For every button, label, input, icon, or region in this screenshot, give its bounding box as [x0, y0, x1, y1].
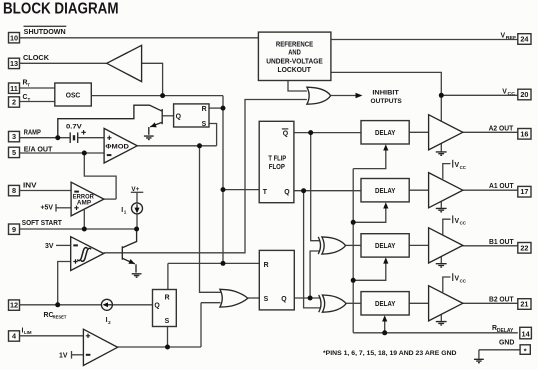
svg-text:20: 20 — [520, 90, 528, 99]
svg-text:5: 5 — [12, 148, 16, 157]
svg-text:T: T — [28, 97, 31, 102]
svg-text:ΦMOD: ΦMOD — [105, 144, 129, 151]
svg-text:RAMP: RAMP — [24, 130, 41, 137]
svg-text:A2 OUT: A2 OUT — [489, 125, 514, 132]
svg-text:11: 11 — [10, 84, 18, 93]
svg-text:AMP: AMP — [77, 201, 91, 207]
svg-text:V: V — [501, 32, 506, 39]
svg-text:13: 13 — [10, 59, 18, 68]
svg-text:INHIBIT: INHIBIT — [372, 90, 399, 97]
svg-text:Q: Q — [281, 296, 287, 303]
svg-text:*: * — [524, 346, 527, 355]
svg-text:Q: Q — [154, 303, 160, 310]
svg-text:+5V: +5V — [41, 204, 54, 211]
svg-text:DELAY: DELAY — [375, 243, 396, 250]
svg-text:LIM: LIM — [24, 330, 32, 335]
svg-text:FLOP: FLOP — [269, 164, 285, 171]
svg-text:R: R — [165, 294, 170, 301]
svg-text:10: 10 — [10, 34, 18, 43]
svg-text:LOCKOUT: LOCKOUT — [277, 67, 311, 74]
svg-text:CC: CC — [460, 165, 467, 170]
svg-text:E/A OUT: E/A OUT — [24, 146, 53, 153]
svg-text:DELAY: DELAY — [375, 301, 396, 308]
svg-text:14: 14 — [522, 329, 531, 338]
svg-text:2: 2 — [108, 320, 111, 325]
svg-text:CC: CC — [460, 278, 467, 283]
svg-text:22: 22 — [520, 243, 528, 252]
svg-text:3: 3 — [12, 132, 16, 141]
svg-text:CLOCK: CLOCK — [23, 55, 49, 62]
svg-text:DELAY: DELAY — [375, 130, 396, 137]
svg-text:REFERENCE: REFERENCE — [276, 41, 314, 48]
svg-text:SHUTDOWN: SHUTDOWN — [24, 29, 66, 36]
svg-text:DELAY: DELAY — [497, 328, 514, 334]
svg-text:UNDER-VOLTAGE: UNDER-VOLTAGE — [266, 58, 323, 65]
svg-text:16: 16 — [520, 129, 528, 138]
svg-text:*PINS 1, 6, 7, 15, 18, 19 AND: *PINS 1, 6, 7, 15, 18, 19 AND 23 ARE GND — [323, 350, 457, 357]
svg-text:0.7V: 0.7V — [66, 123, 83, 130]
svg-text:1: 1 — [124, 210, 127, 215]
svg-text:A1 OUT: A1 OUT — [489, 183, 514, 190]
svg-text:GND: GND — [499, 340, 514, 347]
svg-text:12: 12 — [10, 301, 18, 310]
svg-text:B1 OUT: B1 OUT — [489, 239, 514, 246]
svg-text:OSC: OSC — [66, 93, 81, 100]
svg-text:Q: Q — [283, 131, 289, 138]
svg-text:ERROR: ERROR — [73, 194, 95, 200]
svg-text:T FLIP: T FLIP — [268, 156, 286, 163]
svg-text:BLOCK DIAGRAM: BLOCK DIAGRAM — [3, 1, 119, 18]
svg-text:Q: Q — [176, 114, 182, 121]
svg-text:9: 9 — [12, 225, 16, 234]
svg-text:R: R — [202, 106, 207, 113]
svg-text:CC: CC — [508, 91, 516, 97]
svg-text:REF: REF — [506, 35, 516, 41]
svg-text:3V: 3V — [45, 243, 54, 250]
svg-text:1V: 1V — [59, 353, 68, 360]
svg-text:8: 8 — [12, 186, 16, 195]
svg-text:T: T — [27, 83, 30, 88]
svg-text:21: 21 — [520, 300, 528, 309]
svg-text:24: 24 — [520, 35, 529, 44]
svg-text:S: S — [165, 318, 170, 325]
svg-text:2: 2 — [12, 98, 16, 107]
svg-text:SOFT START: SOFT START — [22, 220, 63, 227]
svg-text:B2 OUT: B2 OUT — [489, 296, 514, 303]
svg-text:AND: AND — [288, 50, 301, 57]
svg-text:S: S — [202, 121, 207, 128]
svg-text:V: V — [502, 88, 507, 95]
svg-text:V+: V+ — [131, 186, 139, 193]
svg-text:R: R — [264, 262, 269, 269]
svg-text:OUTPUTS: OUTPUTS — [371, 98, 403, 105]
svg-text:CC: CC — [460, 221, 467, 226]
svg-text:DELAY: DELAY — [375, 188, 396, 195]
svg-text:INV: INV — [23, 182, 37, 189]
svg-text:Q: Q — [284, 189, 290, 196]
svg-text:S: S — [264, 296, 269, 303]
svg-text:17: 17 — [520, 187, 528, 196]
svg-text:RESET: RESET — [53, 315, 67, 320]
